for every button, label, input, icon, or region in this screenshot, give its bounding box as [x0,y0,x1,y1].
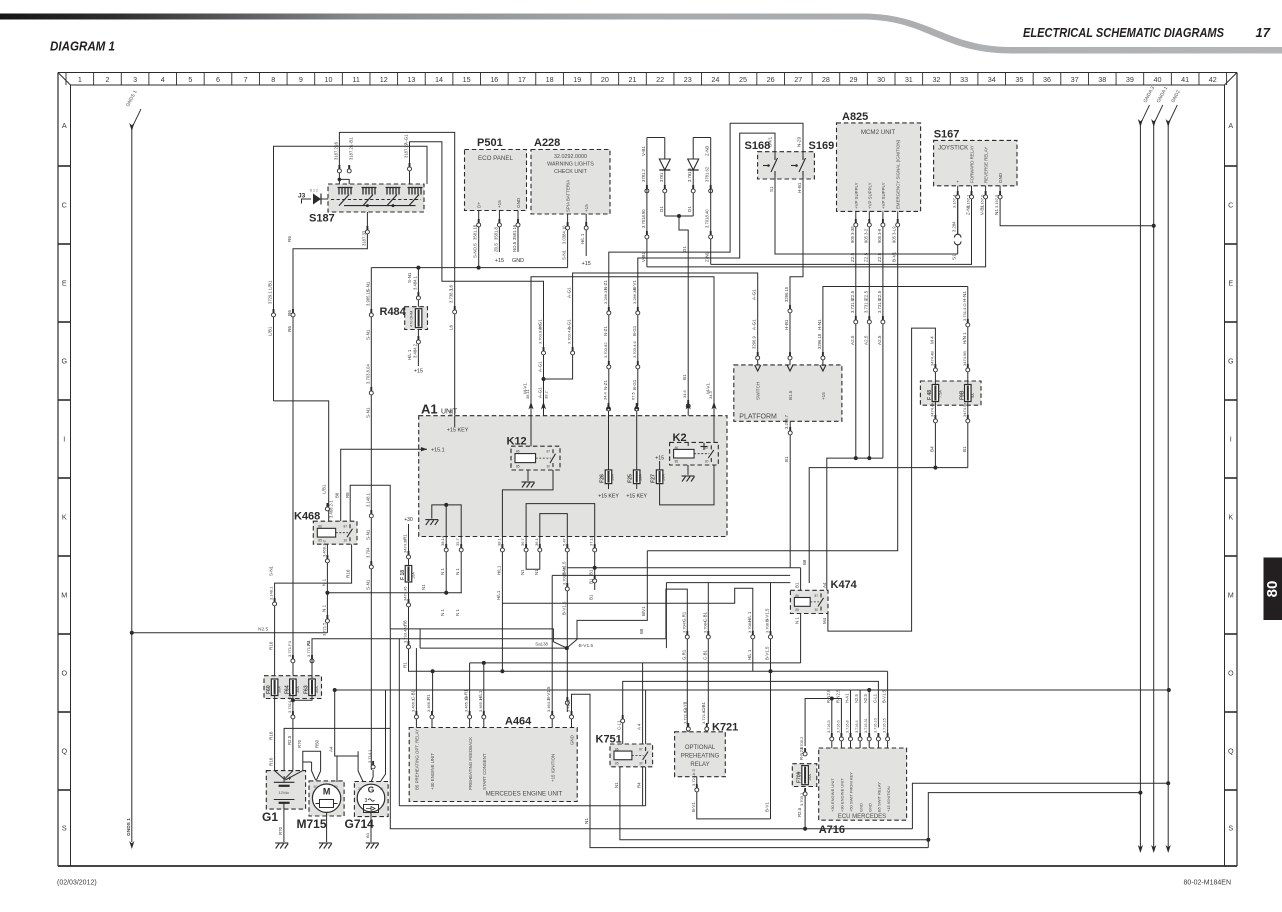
svg-text:R-N2.5: R-N2.5 [799,746,804,760]
wire B-V1.5 main [566,556,568,712]
wire A825 supply 3 [882,228,884,458]
svg-text:R50: R50 [315,739,320,748]
wire platform B1 bottom [789,421,791,568]
wire P501 +15 stub [498,211,500,253]
svg-text:85: 85 [675,460,679,464]
pin A228-2 [585,222,587,226]
svg-text:10A: 10A [611,474,615,481]
pin N1 low [326,615,328,619]
pin K468 top [326,503,328,507]
wire N2.5 to GNDS1 [132,632,328,634]
routing loop around A464 [645,690,647,806]
pin A825-4 [897,211,899,228]
pin S-N1 c [370,510,372,514]
wire K751 R4 down [642,767,644,806]
svg-text:9A: 9A [971,393,975,398]
svg-text:905 3-L9: 905 3-L9 [892,226,897,243]
svg-text:87: 87 [344,525,348,529]
svg-text:87: 87 [815,594,819,598]
svg-text:C: C [62,201,67,210]
pin F63 top [311,655,313,659]
K2 coil ground [687,465,689,475]
svg-text:H/L1: H/L1 [478,690,483,700]
svg-text:3.709.1: 3.709.1 [799,792,804,806]
svg-text:+15: +15 [414,369,423,375]
svg-text:Q: Q [1228,747,1234,756]
svg-text:38.1: 38.1 [496,537,501,546]
svg-text:N1: N1 [584,818,589,824]
pin V-B1 [646,185,648,189]
ECU A464 Mercedes engine unit [409,728,577,802]
node A2.5 b [867,456,871,460]
svg-text:30: 30 [547,465,551,469]
svg-text:L-B1: L-B1 [349,137,354,147]
svg-text:F 48: F 48 [927,390,933,400]
ECU A228 warning lights check unit [531,150,610,215]
svg-text:K474: K474 [831,579,858,591]
svg-text:G-Y8: G-Y8 [682,701,687,712]
pin S-N1 d [370,561,372,565]
svg-text:31: 31 [905,75,913,84]
wire +15 trunk S-N1 to A228 [371,267,567,269]
svg-text:30: 30 [358,787,362,791]
node F64/F63 join [291,698,295,702]
svg-text:ELECTRICAL SCHEMATIC DIAGRAMS: ELECTRICAL SCHEMATIC DIAGRAMS [1023,25,1224,40]
svg-text:J3: J3 [298,193,306,200]
wire A825 supply 1 [855,228,857,458]
pin Z-N1 low [710,231,712,235]
svg-text:V-B1: V-B1 [641,146,646,156]
svg-text:B-V1.5: B-V1.5 [579,643,594,649]
svg-text:38.2: 38.2 [544,390,549,399]
wire B-V1 Sa138 riser to A825 [567,551,648,648]
ECU A716 [819,748,907,820]
pin K468 bottom [326,555,328,559]
svg-text:Z2.5: Z2.5 [850,252,855,262]
pin F48 bottom [934,415,936,419]
svg-text:30: 30 [705,460,709,464]
svg-text:MCM2 UNIT: MCM2 UNIT [861,129,896,136]
pin A716 3.716.5 [831,734,833,748]
wire A464 preheat feedback riser [469,663,471,712]
pin A716 3.716.8 [850,734,852,748]
svg-text:B1: B1 [962,446,967,452]
wire K468 87a R16 [275,544,352,676]
wire R484 top [417,268,419,307]
wire M-V1 K12-K2 link [531,277,714,404]
svg-text:30A: 30A [296,686,300,693]
ECU A825 MCM2 unit [837,123,921,211]
pin A228-1 [567,222,569,226]
node R2.5 rail [803,827,807,831]
svg-text:K: K [62,513,67,522]
svg-text:R16: R16 [346,569,351,578]
svg-text:30: 30 [344,539,348,543]
svg-text:38.14: 38.14 [440,535,445,546]
svg-text:ECO PANEL: ECO PANEL [478,155,514,162]
svg-text:N 1: N 1 [795,617,800,624]
wire A1 K12out H/L1 [501,556,503,671]
svg-text:L6: L6 [334,141,339,147]
svg-text:+VP SUPPLY: +VP SUPPLY [881,182,886,209]
pin A1 bottom 5.47 [566,537,568,557]
svg-text:3.703.4.6: 3.703.4.6 [632,341,637,358]
svg-text:A4: A4 [329,746,334,752]
svg-text:A716: A716 [819,824,845,836]
svg-text:H/L 1: H/L 1 [747,649,752,660]
svg-text:R16: R16 [269,731,274,740]
svg-text:3.7018.40: 3.7018.40 [705,209,710,228]
fuse F18 [405,566,412,583]
pin F709 top [804,748,806,752]
svg-text:37.13: 37.13 [589,535,594,546]
pin F25 top [636,403,638,407]
svg-text:A: A [1228,121,1233,130]
pin B-G1 a [637,307,639,311]
joystick S167 [934,140,1017,185]
svg-text:28: 28 [822,75,830,84]
svg-text:A2.5: A2.5 [877,335,882,345]
svg-text:3474.4a: 3474.4a [929,402,934,417]
svg-text:3.721.b.3: 3.721.b.3 [691,769,696,786]
svg-text:+15: +15 [584,204,589,212]
node B-V1.5 trunk [769,669,773,673]
svg-text:5.47: 5.47 [561,537,566,546]
svg-text:G: G [61,357,67,366]
svg-text:6: 6 [216,75,220,84]
wire K721 G-R1 riser [687,724,689,732]
svg-text:12Vdc: 12Vdc [279,791,290,795]
svg-text:C-L1: C-L1 [617,720,622,730]
svg-text:+30 ENGINE UNIT: +30 ENGINE UNIT [830,778,835,812]
svg-text:3.714.1: 3.714.1 [367,749,372,763]
svg-text:B0: B0 [365,832,370,838]
svg-text:6 1 2: 6 1 2 [310,189,318,193]
alternator G714 [354,782,388,817]
fuse F48 [932,385,939,402]
svg-text:Z-N3: Z-N3 [705,145,710,156]
drawing frame [57,73,59,867]
wire S187 R6 bottom [293,212,367,676]
svg-text:10A: 10A [412,572,416,579]
svg-text:3474.36: 3474.36 [403,586,408,601]
svg-text:K: K [1228,513,1233,522]
svg-text:10A: 10A [639,474,643,481]
wire F18 net [408,524,410,566]
svg-text:30: 30 [639,761,643,765]
wire G-R1 riser [666,589,687,732]
svg-text:905 3-9: 905 3-9 [877,228,882,243]
svg-text:D+: D+ [477,202,482,208]
pin L/B1 [273,309,275,313]
svg-text:C-B1: C-B1 [702,649,707,660]
svg-text:S-N1: S-N1 [365,281,370,292]
pin 3484.1 [417,292,419,296]
pin A464 3.466.2 [431,712,433,728]
svg-text:H/L1: H/L1 [496,590,501,600]
svg-text:3.716.8: 3.716.8 [846,720,850,733]
pin B-V1.5 [566,583,568,587]
svg-text:14: 14 [435,75,443,84]
svg-text:3581.18: 3581.18 [473,224,478,240]
svg-text:B4: B4 [929,446,934,452]
wire S187 top frame loop [274,146,428,401]
svg-text:S-N1: S-N1 [365,579,370,590]
svg-text:H-B1: H-B1 [797,182,802,193]
svg-text:H/N 1: H/N 1 [962,332,967,344]
wire S167 V-B1 [647,186,986,267]
wire F48 feed from K474 [828,328,936,631]
wire A2.5 trunk to K474 [827,458,883,590]
svg-text:M: M [323,787,331,797]
svg-text:PREHEATING: PREHEATING [681,754,720,760]
svg-text:86: 86 [795,594,799,598]
wire K751 N1 down [620,767,928,840]
svg-text:3.716.10: 3.716.10 [873,718,877,733]
svg-text:E: E [1228,279,1233,288]
wire F27 to K2 contact [660,465,714,505]
svg-text:Z2.5: Z2.5 [877,252,882,262]
A1 ground left [432,505,461,537]
svg-text:WARNING LIGHTS: WARNING LIGHTS [547,162,594,168]
pin F18 top [408,551,410,555]
pin B1 [594,575,596,579]
pin F48 top [934,364,936,368]
pin Z-N3 [710,185,712,189]
wire K721 C-B1 riser [706,724,708,732]
svg-text:PLATFORM: PLATFORM [739,413,777,420]
svg-text:R-N2.5: R-N2.5 [835,689,840,703]
svg-text:B8: B8 [335,492,340,498]
svg-text:+15.1: +15.1 [431,448,445,454]
node GNDS1 tap [130,631,134,635]
svg-text:N 1: N 1 [440,568,445,575]
svg-text:FORWARD RELAY: FORWARD RELAY [970,145,975,183]
svg-text:7.5A: 7.5A [938,390,942,398]
node rails join [926,838,930,842]
svg-text:B-V1.5: B-V1.5 [765,646,770,660]
svg-text:29: 29 [850,75,858,84]
svg-text:2: 2 [105,75,109,84]
svg-text:N2.5: N2.5 [854,693,859,703]
svg-text:15: 15 [463,75,471,84]
fuse F709 [792,764,817,787]
svg-text:22: 22 [656,75,664,84]
svg-text:+15: +15 [655,456,664,462]
svg-text:3187.33: 3187.33 [362,230,367,246]
svg-text:R-N2.5: R-N2.5 [826,689,831,703]
svg-text:C-B1: C-B1 [701,701,706,712]
svg-text:3781.2: 3781.2 [641,169,646,182]
svg-text:B/V1: B/V1 [641,606,646,616]
pin Z2.5 mid [868,316,870,320]
pin K721-1 [687,723,689,727]
svg-text:START CONSENT: START CONSENT [482,753,487,790]
fusebox F60/F64/F63 [264,676,322,699]
svg-text:K12: K12 [507,436,527,448]
svg-text:3.167.5: 3.167.5 [994,194,999,208]
svg-text:R2.5: R2.5 [797,807,802,817]
svg-text:M-V1: M-V1 [706,383,711,394]
pin A825-1 [855,211,857,228]
svg-text:+15 KEY: +15 KEY [598,494,619,500]
inline connector 3.284 [954,234,961,245]
connector block S187 [328,184,424,212]
svg-text:3474.9a: 3474.9a [962,402,967,417]
svg-text:30: 30 [815,608,819,612]
pin C-L1 [622,715,624,719]
wire F60 bottom R16 [274,696,276,771]
svg-text:+15: +15 [821,392,826,400]
svg-text:30: 30 [334,785,338,789]
fuse F60 [271,679,278,696]
wire K474 N1 down [800,614,802,663]
wire gnd trunk upper [912,783,1168,829]
wire F64 bottom [292,696,294,771]
svg-text:3.716.6: 3.716.6 [836,720,840,733]
pin R6 mid [292,309,294,313]
pin S167-3 [985,191,987,195]
svg-text:B-V1.5: B-V1.5 [546,686,551,700]
svg-text:F709: F709 [796,771,802,783]
svg-text:905 3-2: 905 3-2 [863,228,868,243]
node GND2 tap [1167,688,1171,692]
wire A716 +30 pair to F709 [805,699,841,747]
K12 coil ground [527,470,529,481]
pin 3187.27 [409,163,411,167]
svg-text:R6: R6 [287,236,292,242]
svg-text:3.731.4.O: 3.731.4.O [962,303,967,321]
svg-text:NO.5: NO.5 [512,241,517,252]
svg-text:CHECK UNIT: CHECK UNIT [554,169,588,175]
wire S167 Z-N1 [711,186,972,265]
wire K721 B-V1 down [697,777,771,819]
wire S167 GND [1000,186,1154,226]
svg-text:G.R1: G.R1 [681,649,686,660]
wire F63 feed [312,639,399,806]
svg-text:3.771.F4: 3.771.F4 [287,640,292,657]
svg-text:(02/03/2012): (02/03/2012) [57,880,97,887]
svg-text:R1: R1 [403,662,408,668]
svg-text:A1: A1 [421,402,438,417]
svg-text:D1: D1 [682,246,687,252]
svg-text:50: 50 [314,785,318,789]
pin F26 top [608,403,610,407]
node +30 pair [830,697,834,701]
platform unit [734,365,842,421]
svg-text:OPTIONAL: OPTIONAL [685,745,716,751]
resistor R484 [405,307,428,330]
svg-text:8: 8 [271,75,275,84]
wire A825 B-V1 [647,228,897,551]
pin A464 3.464.2 [551,712,553,728]
pin A-G1 mid [543,347,545,351]
pin A464 3.47.6 [571,712,573,728]
wire A1 N1 pin a drop [445,556,447,593]
svg-text:3.716.15: 3.716.15 [883,718,887,733]
svg-text:S-N1: S-N1 [365,529,370,540]
pin 3.733.4A2 [408,641,410,645]
svg-text:A-G1: A-G1 [538,361,543,372]
wire A464 GND N1 [572,694,929,847]
svg-text:N2.5: N2.5 [863,693,868,703]
node A2.5 a [854,456,858,460]
pin S-N1 b [370,387,372,391]
node A1 gnd [444,503,448,507]
svg-text:B1: B1 [589,594,594,600]
M715 feeds [312,762,316,780]
svg-text:3729.1: 3729.1 [268,291,273,304]
pin L6 into A1 [454,306,456,310]
svg-text:A228: A228 [534,137,560,149]
pin P501-1 [478,219,480,223]
svg-text:N-Z1: N-Z1 [603,380,608,390]
svg-text:10: 10 [325,75,333,84]
wire GND2 [1167,124,1169,849]
pin A716 3.716.6 [840,734,842,748]
svg-text:S-N1: S-N1 [365,407,370,418]
svg-text:3: 3 [133,75,137,84]
wire GNDS 1 left vertical [131,128,133,842]
wire B4 trunk [809,468,968,583]
svg-text:GND: GND [512,258,524,264]
svg-text:42: 42 [1209,75,1217,84]
starter M715 [309,781,344,816]
wire V-B1 drop [646,138,648,267]
svg-text:MERCEDES ENGINE UNIT: MERCEDES ENGINE UNIT [486,791,563,798]
svg-text:C-B1: C-B1 [410,689,415,700]
svg-text:A-G1: A-G1 [404,134,409,145]
svg-text:3.733.4A2: 3.733.4A2 [403,624,408,643]
svg-text:N 1: N 1 [321,578,326,586]
wire platform B1 trunk [552,574,790,576]
svg-text:B-V1: B-V1 [691,802,696,812]
svg-text:L6: L6 [449,284,454,290]
pin S167-2 [971,191,973,195]
node Sa138 [565,646,569,650]
svg-text:24: 24 [711,75,719,84]
wire trunk N1 row M [327,592,461,594]
svg-text:905 3-38: 905 3-38 [850,226,855,243]
pin F709 bottom [804,788,806,792]
svg-text:B1: B1 [784,456,789,462]
wire L/B1 to K468 [274,401,329,521]
ground G1 [275,843,288,849]
S187 internal link dashed [331,199,421,201]
svg-text:3581.8: 3581.8 [493,227,498,240]
svg-text:3581.19: 3581.19 [512,224,517,240]
wire K751 C-L1 riser [623,681,879,744]
svg-text:D1: D1 [659,206,664,212]
svg-text:35.7: 35.7 [455,537,460,546]
svg-text:3: 3 [365,798,368,804]
svg-text:3.703.82: 3.703.82 [603,342,608,358]
svg-text:17: 17 [518,75,526,84]
K12 riser 2 A-G1 [541,402,546,410]
wire F9B feed H-N1 [967,287,969,385]
svg-text:87: 87 [639,748,643,752]
svg-text:A-G1: A-G1 [752,319,757,330]
pin F9B top [967,364,969,368]
wire K474 B1 riser [800,568,802,591]
svg-text:470 OHM: 470 OHM [410,311,414,327]
wire battery feed R2.5 [390,629,912,829]
svg-text:F 18: F 18 [400,570,406,580]
svg-text:86: 86 [516,450,520,454]
wire K751 A4 riser [642,663,644,744]
svg-text:E: E [62,279,67,288]
svg-text:3474.9B: 3474.9B [962,351,967,366]
